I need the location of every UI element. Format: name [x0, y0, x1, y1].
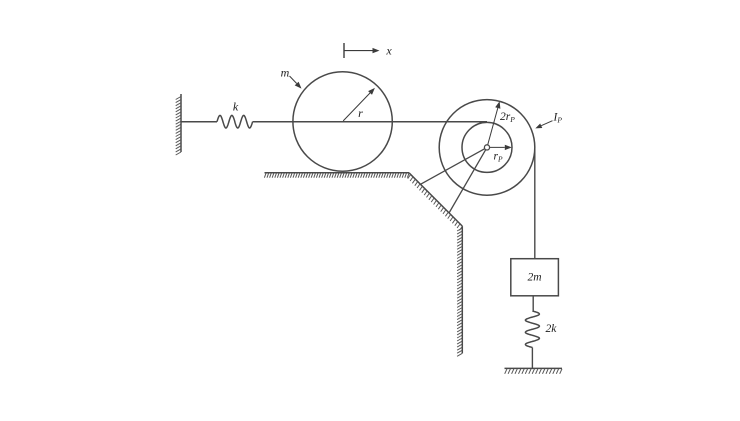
- svg-text:k: k: [233, 100, 239, 114]
- svg-text:x: x: [385, 44, 392, 58]
- svg-text:2k: 2k: [546, 323, 558, 335]
- svg-text:m: m: [281, 66, 290, 80]
- svg-text:r: r: [358, 106, 363, 120]
- svg-text:2m: 2m: [527, 272, 541, 284]
